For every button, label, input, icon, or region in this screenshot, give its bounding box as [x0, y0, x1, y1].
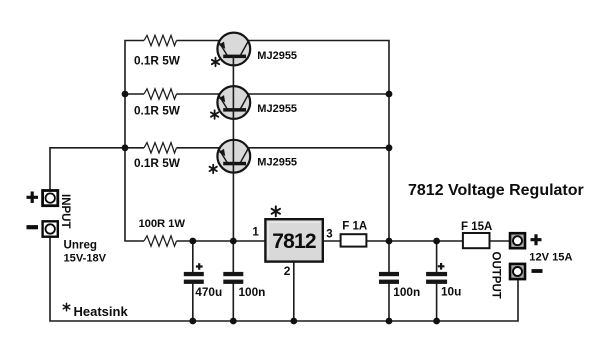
svg-text:MJ2955: MJ2955 — [257, 157, 297, 169]
terminal: input + — [43, 191, 58, 206]
resistor R3 0.1R 5W — [144, 143, 177, 153]
wire: row 3 emitter/collector wire — [125, 147, 389, 149]
transistor Q2 MJ2955 — [217, 86, 250, 119]
svg-text:F 1A: F 1A — [342, 221, 367, 233]
junction: ground rail at C2 — [230, 318, 237, 325]
svg-text:470u: 470u — [195, 285, 222, 299]
svg-text:MJ2955: MJ2955 — [257, 50, 297, 62]
junction: left bus row2 — [122, 91, 129, 98]
fuse F1 F 1A — [341, 234, 367, 246]
svg-text:F 15A: F 15A — [461, 221, 492, 233]
junction: ground rail at C1 — [189, 318, 196, 325]
wire: left input bus vertical with row1 corner and 100R corner — [125, 41, 144, 242]
junction: ground rail at C3 — [386, 318, 393, 325]
svg-text:12V 15A: 12V 15A — [529, 251, 572, 263]
polarity sign: output + — [531, 234, 542, 245]
svg-text:100n: 100n — [393, 285, 420, 299]
regulator U1 7812 — [265, 219, 322, 261]
svg-text:10u: 10u — [441, 285, 461, 299]
svg-text:100n: 100n — [239, 285, 266, 299]
svg-text:1: 1 — [252, 226, 259, 238]
transistor Q1 MJ2955 — [217, 33, 250, 66]
svg-text:7812 Voltage Regulator: 7812 Voltage Regulator — [408, 182, 584, 199]
junction: right bus row2 — [386, 91, 393, 98]
svg-text:15V-18V: 15V-18V — [64, 252, 107, 264]
wire: C2 100n leads — [232, 241, 234, 321]
wire: fuse F15A to output + terminal — [490, 240, 511, 242]
svg-text:Heatsink: Heatsink — [74, 304, 129, 319]
wire: row 1 emitter wire, collector wire and right bus — [177, 41, 390, 242]
terminal: input - — [43, 221, 58, 236]
junction: ground rail at pin 2 — [290, 318, 297, 325]
svg-text:3: 3 — [326, 229, 332, 241]
wire: C3 100n leads — [388, 241, 390, 321]
capacitor C1 470u — [184, 263, 204, 284]
svg-text:0.1R 5W: 0.1R 5W — [134, 156, 181, 170]
capacitor C2 100n — [223, 272, 243, 284]
wire: common base line down to 7812 input node — [232, 57, 234, 242]
wire: row 2 emitter/collector wire — [125, 93, 389, 95]
label: Q1 heatsink asterisk — [212, 58, 219, 67]
polarity sign: output - — [532, 269, 543, 273]
svg-text:Unreg: Unreg — [64, 238, 98, 251]
wire: 100R to 7812 pin 1 — [177, 240, 266, 242]
junction: node at C4 top — [433, 238, 440, 245]
wire: C1 470u leads — [192, 241, 194, 321]
resistor R1 0.1R 5W — [144, 35, 177, 45]
svg-text:0.1R 5W: 0.1R 5W — [134, 53, 181, 67]
svg-text:MJ2955: MJ2955 — [257, 103, 297, 115]
label: Q2 heatsink asterisk — [211, 110, 218, 119]
fuse F2 F 15A — [463, 233, 490, 248]
svg-text:0.1R 5W: 0.1R 5W — [134, 103, 181, 117]
wire: input + terminal riser to bus — [50, 148, 125, 190]
junction: node at C3 top / collector bus — [386, 238, 393, 245]
wire: ground rail from input - to output - — [50, 237, 518, 321]
wire: 7812 pin 2 ground lead — [293, 261, 295, 321]
svg-text:2: 2 — [284, 264, 291, 278]
junction: node at C1 top — [189, 238, 196, 245]
junction: node at C2 top / base line — [230, 238, 237, 245]
svg-text:100R 1W: 100R 1W — [139, 218, 186, 230]
svg-text:INPUT: INPUT — [59, 194, 71, 229]
wire: fuse F1A to fuse F15A — [367, 240, 463, 242]
junction: left bus row3 / input feed — [122, 144, 129, 151]
resistor R2 0.1R 5W — [144, 89, 177, 99]
label: Q3 heatsink asterisk — [210, 165, 217, 174]
resistor R4 100R 1W — [144, 236, 177, 246]
polarity sign: input + — [27, 192, 39, 204]
svg-text:OUTPUT: OUTPUT — [490, 252, 502, 299]
label: heatsink note — [63, 303, 70, 311]
wire: 7812 pin 3 to fuse F1A — [323, 240, 341, 242]
polarity sign: input - — [27, 225, 39, 229]
capacitor C4 10u — [426, 263, 447, 284]
terminal: output - — [510, 264, 525, 279]
junction: ground rail at C4 — [433, 318, 440, 325]
terminal: output + — [510, 233, 525, 248]
transistor Q3 MJ2955 — [217, 140, 250, 173]
wire: C4 10u leads — [436, 241, 438, 321]
capacitor C3 100n — [379, 272, 399, 284]
label: U1 heatsink asterisk — [272, 206, 280, 216]
svg-text:7812: 7812 — [272, 230, 316, 253]
junction: right bus row3 — [386, 144, 393, 151]
